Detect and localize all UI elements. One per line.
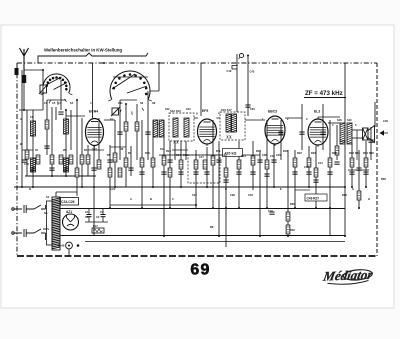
svg-text:C2: C2 xyxy=(100,210,104,214)
junction dot 7 xyxy=(125,103,127,105)
wire v43 xyxy=(266,120,268,208)
IF label underline xyxy=(304,97,346,99)
capacitor C14 xyxy=(167,160,172,162)
svg-text:XX: XX xyxy=(173,140,179,145)
wire v59 xyxy=(374,102,376,127)
svg-text:R11: R11 xyxy=(216,149,221,153)
wire v31 xyxy=(185,141,187,160)
svg-text:R8: R8 xyxy=(210,225,214,229)
capacitor C20 xyxy=(245,105,250,107)
junction dot 14 xyxy=(195,204,197,206)
anode stub ECH4 xyxy=(104,119,115,121)
mains terminals xyxy=(12,208,22,234)
svg-text:XX: XX xyxy=(226,135,232,140)
svg-text:C30: C30 xyxy=(270,154,275,158)
wire v2 xyxy=(32,110,34,187)
svg-text:B: B xyxy=(150,197,152,201)
capacitor C33 xyxy=(264,174,269,176)
svg-text:S1: S1 xyxy=(44,211,48,215)
left jog wire b xyxy=(110,146,126,148)
wire v5 xyxy=(46,100,48,155)
resistor R30 xyxy=(286,212,290,221)
dial lamp xyxy=(66,242,73,249)
resistor R34 xyxy=(364,158,368,167)
svg-text:69: 69 xyxy=(190,262,210,279)
mains to primary upper xyxy=(45,205,47,209)
svg-text:C24-C26: C24-C26 xyxy=(61,200,75,204)
svg-text:C41: C41 xyxy=(318,161,323,165)
OT to speaker stub top xyxy=(352,129,363,131)
trimmer capacitor C3 xyxy=(39,84,48,94)
T2 out stub xyxy=(245,119,265,121)
wire v38 xyxy=(236,54,238,112)
demodulator EBC3 xyxy=(265,116,285,146)
Mediator logo xyxy=(321,267,376,285)
capacitor C25 xyxy=(236,172,241,174)
svg-text:C3: C3 xyxy=(44,101,48,105)
wire v9 xyxy=(65,110,67,176)
transformer top to bus xyxy=(56,191,77,193)
band switch section B xyxy=(108,71,152,115)
resistor R11 xyxy=(211,156,215,165)
wire v47 xyxy=(294,150,296,208)
wire v34 xyxy=(206,147,208,187)
mains switch S1 lower xyxy=(26,229,45,233)
junction dot 8 xyxy=(141,207,143,209)
trimmer capacitor C12 xyxy=(111,107,120,116)
heater bus xyxy=(110,204,196,206)
mains fuse caps xyxy=(24,205,26,237)
filter capacitor block C24-C26 xyxy=(61,198,79,206)
wire v52 xyxy=(329,120,331,236)
mains to primary lower xyxy=(45,233,47,240)
wire v29 xyxy=(174,141,176,160)
wire v22 xyxy=(136,104,138,160)
output transformer primary S18 xyxy=(340,123,345,144)
capacitor C32 xyxy=(269,212,274,214)
resistor R7 xyxy=(124,122,128,131)
svg-text:220V: 220V xyxy=(43,227,49,231)
svg-text:R30: R30 xyxy=(290,202,295,206)
svg-text:C49 R27: C49 R27 xyxy=(307,196,320,200)
resistor R31 xyxy=(75,168,79,177)
wire v41 xyxy=(252,141,254,190)
svg-text:C11: C11 xyxy=(118,101,123,105)
svg-text:C28: C28 xyxy=(230,193,235,197)
ground bus xyxy=(60,235,345,237)
output connector arrow xyxy=(380,130,385,136)
RF coil S10 xyxy=(31,121,36,136)
capacitor C2 xyxy=(30,168,35,170)
junction dot 13 xyxy=(180,186,182,188)
resistor R18 xyxy=(162,156,166,165)
capacitor C36 xyxy=(327,172,332,174)
svg-text:D: D xyxy=(225,187,227,191)
svg-text:C28: C28 xyxy=(262,153,267,157)
band switch section A xyxy=(41,74,73,105)
junction dot 26 xyxy=(308,186,310,188)
capacitor C15 xyxy=(139,172,144,174)
transformer top wire xyxy=(55,192,57,197)
svg-text:Wellenbereichschalter in KW-St: Wellenbereichschalter in KW-Stellung xyxy=(44,48,122,53)
speaker branch wire xyxy=(356,130,358,160)
junction dot 17 xyxy=(218,235,220,237)
output pentode EL3 xyxy=(308,119,328,147)
wire v56 xyxy=(358,150,360,208)
capacitor C41 xyxy=(313,180,318,182)
resistor R14 xyxy=(265,160,269,169)
capacitor C29 xyxy=(271,160,276,162)
wire v44 xyxy=(273,144,275,187)
wire v23 xyxy=(141,120,143,208)
svg-text:C2: C2 xyxy=(96,215,100,219)
left rail jog xyxy=(22,149,33,151)
svg-text:C6: C6 xyxy=(30,115,34,119)
RF coil S11 xyxy=(64,119,69,134)
junction dot 38 xyxy=(81,186,83,188)
svg-text:R19: R19 xyxy=(183,153,188,157)
resistor R29 xyxy=(59,155,63,164)
wire v30 xyxy=(180,141,182,187)
wire v0 xyxy=(21,70,23,187)
capacitor C8 xyxy=(107,160,112,162)
grid stub ECH4 xyxy=(66,115,85,117)
osc section jog xyxy=(120,99,137,101)
capacitor C2 xyxy=(101,209,106,223)
svg-text:C44: C44 xyxy=(340,139,345,143)
wire v40 xyxy=(247,56,249,117)
wire v25 xyxy=(152,120,154,187)
resistor R10 xyxy=(140,158,144,167)
switch link wire xyxy=(113,76,148,78)
resistor R28 xyxy=(25,150,29,159)
svg-text:N: N xyxy=(29,187,31,191)
svg-text:C10: C10 xyxy=(92,147,97,151)
capacitor C10 xyxy=(91,168,96,170)
junction dot 0 xyxy=(23,109,25,111)
capacitor C42 xyxy=(320,132,325,134)
lamp junction dot xyxy=(77,244,80,247)
capacitor C45 xyxy=(356,168,361,170)
wire v32 xyxy=(195,150,197,208)
wire v6 xyxy=(51,107,53,176)
svg-text:R34: R34 xyxy=(363,151,368,155)
resistor R45 xyxy=(314,168,318,177)
wire v27 xyxy=(163,120,165,236)
wire v7 xyxy=(55,107,57,120)
IF T1 primary S12 xyxy=(173,118,178,137)
power transformer core hatching xyxy=(52,198,60,249)
wire v35 xyxy=(212,120,214,208)
resistor R12 xyxy=(237,160,241,169)
wire v37 xyxy=(225,150,227,247)
svg-text:R36: R36 xyxy=(381,177,386,181)
wire v42 xyxy=(259,150,261,236)
right jog wire e xyxy=(295,189,310,191)
wire v48 xyxy=(301,104,303,150)
capacitor C4 xyxy=(44,146,49,148)
junction dot 16 xyxy=(212,207,214,209)
chassis frame top xyxy=(17,62,377,64)
svg-text:E: E xyxy=(280,187,282,191)
wire v21 xyxy=(130,146,132,176)
resistor value box 420k xyxy=(223,149,243,157)
wire v54 xyxy=(344,63,346,236)
svg-text:EBC3: EBC3 xyxy=(268,110,277,114)
svg-text:C13: C13 xyxy=(155,122,160,126)
svg-text:R36: R36 xyxy=(342,193,347,197)
junction dot 34 xyxy=(21,186,23,188)
svg-text:R6: R6 xyxy=(120,147,124,151)
switch link jog xyxy=(150,91,159,94)
terminal block xyxy=(15,68,19,75)
junction dot 5 xyxy=(103,62,105,64)
bottom link wire xyxy=(85,241,345,243)
RF coil S3 xyxy=(64,158,69,172)
capacitor C21 xyxy=(204,172,209,174)
junction dot 9 xyxy=(152,186,154,188)
svg-text:C16: C16 xyxy=(24,162,29,166)
svg-text:R5: R5 xyxy=(107,153,111,157)
capacitor C18 xyxy=(161,172,166,174)
wire v26 xyxy=(158,63,160,91)
antenna node wire xyxy=(19,109,43,111)
capacitor C46 xyxy=(368,140,373,142)
wire v13 xyxy=(87,145,89,176)
svg-text:R23: R23 xyxy=(311,151,316,155)
resistor R15 xyxy=(293,158,297,167)
svg-text:S14: S14 xyxy=(160,147,165,151)
svg-text:R12: R12 xyxy=(241,154,246,158)
svg-text:A: A xyxy=(20,117,22,121)
capacitor C1 xyxy=(87,209,92,223)
pickup jack P xyxy=(239,53,244,59)
OT to speaker stub bottom xyxy=(352,137,362,139)
oscillator coil S14 xyxy=(153,120,158,137)
wire v33 xyxy=(200,63,202,116)
svg-text:S1: S1 xyxy=(46,195,50,199)
right jog wire d xyxy=(348,169,369,171)
resistor R13 xyxy=(251,156,255,165)
resistor R42 xyxy=(194,160,198,169)
heater cap rail xyxy=(85,221,108,223)
junction dot 12 xyxy=(169,207,171,209)
T1 to EF9 stub xyxy=(194,117,198,119)
switch feed jog xyxy=(47,99,66,101)
IF transformer T2 box xyxy=(220,112,245,140)
svg-text:C19: C19 xyxy=(227,69,232,73)
svg-text:C22: C22 xyxy=(222,153,227,157)
IF pentode EF9 xyxy=(198,119,217,146)
svg-text:C1: C1 xyxy=(85,210,89,214)
capacitor C16 xyxy=(21,160,26,162)
junction dot 33 xyxy=(365,186,367,188)
junction dot 2 xyxy=(65,109,67,111)
padder trimmer xyxy=(45,120,49,129)
svg-text:C32: C32 xyxy=(268,209,273,213)
capacitor C22 xyxy=(216,160,221,162)
capacitor C44 xyxy=(334,162,339,164)
resistor R43 xyxy=(203,160,207,169)
junction dot 39 xyxy=(109,207,111,209)
svg-text:2M: 2M xyxy=(63,148,67,152)
svg-text:H: H xyxy=(368,197,370,201)
EL3 top to right xyxy=(318,116,340,118)
svg-text:S12: S12 xyxy=(165,107,170,111)
junction dot 22 xyxy=(266,207,268,209)
wire v19 xyxy=(119,100,121,160)
svg-text:C7: C7 xyxy=(58,101,62,105)
svg-text:R4: R4 xyxy=(84,148,88,152)
wire v14 xyxy=(93,146,95,236)
antenna coil S1 xyxy=(22,75,26,83)
wire v1 xyxy=(26,110,28,176)
resistor R41 xyxy=(168,168,172,177)
junction dot 11 xyxy=(163,235,165,237)
antenna xyxy=(20,48,29,75)
capacitor C7 xyxy=(63,168,68,170)
loudspeaker xyxy=(363,126,375,143)
anode feed wire xyxy=(159,154,260,156)
wire v3 xyxy=(37,58,39,63)
capacitor C5 xyxy=(58,112,63,114)
wire v17 xyxy=(109,145,111,208)
capacitor C28 xyxy=(257,160,262,162)
junction dot 31 xyxy=(351,186,353,188)
svg-text:ECH4: ECH4 xyxy=(89,110,98,114)
svg-text:C5: C5 xyxy=(52,101,56,105)
svg-text:EL3: EL3 xyxy=(314,110,320,114)
wire v58 xyxy=(370,127,372,160)
resistor R40 xyxy=(151,158,155,167)
EL3 top wire xyxy=(317,117,319,119)
power transformer primary winding xyxy=(47,201,53,245)
tone network box xyxy=(188,155,220,183)
svg-text:S18: S18 xyxy=(337,118,342,122)
resistor R2 xyxy=(50,155,54,164)
wire v39 xyxy=(238,141,240,208)
antenna down wire xyxy=(23,83,25,110)
svg-text:B: B xyxy=(20,142,22,146)
junction dot 20 xyxy=(247,55,249,57)
resistor R23 xyxy=(328,158,332,167)
RF coil S2 xyxy=(31,158,36,172)
svg-text:Ch40: Ch40 xyxy=(58,244,65,248)
resistor R32 xyxy=(286,225,290,234)
wire v8 xyxy=(60,80,62,110)
svg-text:S4: S4 xyxy=(70,101,74,105)
junction dot 37 xyxy=(65,175,67,177)
capacitor C17 xyxy=(193,172,198,174)
svg-text:C29: C29 xyxy=(276,153,281,157)
capacitor C19 xyxy=(178,172,183,174)
junction dot 25 xyxy=(294,207,296,209)
chassis frame right xyxy=(376,63,378,256)
junction dot 36 xyxy=(51,175,53,177)
oscillator coil S15 xyxy=(159,120,164,137)
resistor R39 xyxy=(118,168,122,177)
svg-text:C42: C42 xyxy=(250,70,255,74)
resistor R47 xyxy=(92,228,104,233)
resistor R35 xyxy=(357,191,361,200)
resistor R9 xyxy=(124,158,128,167)
capacitor C27 xyxy=(250,172,255,174)
AVC bus xyxy=(60,208,345,210)
svg-text:C17: C17 xyxy=(199,155,204,159)
junction dot 1 xyxy=(42,69,44,71)
svg-text:R22: R22 xyxy=(297,151,302,155)
svg-text:R18: R18 xyxy=(166,149,171,153)
power transformer core xyxy=(52,197,60,250)
lamp down wire xyxy=(68,249,70,256)
svg-text:S19: S19 xyxy=(347,118,352,122)
output transformer secondary S19 xyxy=(347,123,352,144)
resistor R22 xyxy=(307,158,311,167)
capacitor C13 xyxy=(145,132,150,134)
junction dot 21 xyxy=(259,235,261,237)
svg-text:R10: R10 xyxy=(145,151,150,155)
HT bus xyxy=(14,186,345,188)
svg-text:S16 S17: S16 S17 xyxy=(221,108,232,112)
junction dot 30 xyxy=(344,235,346,237)
junction dot 19 xyxy=(238,207,240,209)
capacitor C34 xyxy=(292,172,297,174)
capacitor C38 xyxy=(363,172,368,174)
IF T2 primary S16 xyxy=(226,114,231,132)
EBC3 to EL3 stub xyxy=(285,117,302,119)
capacitor C35 xyxy=(306,172,311,174)
capacitor C40 xyxy=(299,132,304,134)
EL3 to OT stub xyxy=(328,122,340,124)
svg-text:C48: C48 xyxy=(383,119,388,123)
svg-text:C14: C14 xyxy=(176,153,181,157)
IF T1 secondary S13 xyxy=(184,118,189,137)
wire v12 xyxy=(81,118,83,187)
svg-text:R13: R13 xyxy=(256,149,261,153)
mid jog wire c xyxy=(172,149,188,151)
EF9 to T2 stub xyxy=(217,117,221,119)
wire v24 xyxy=(147,91,149,160)
svg-text:R36: R36 xyxy=(369,151,374,155)
resistor R3 xyxy=(69,155,73,164)
wire v46 xyxy=(287,150,289,236)
svg-text:R32: R32 xyxy=(290,228,295,232)
IF transformer T1 box xyxy=(169,113,194,141)
junction dot 28 xyxy=(329,207,331,209)
capacitor C11 xyxy=(128,168,133,170)
junction dot 23 xyxy=(273,186,275,188)
svg-text:S13: S13 xyxy=(186,107,191,111)
junction dot 3 xyxy=(76,99,78,101)
wire v55 xyxy=(351,143,353,187)
wire v10 xyxy=(70,110,72,150)
wire v53 xyxy=(336,125,338,160)
label box C49 R27 xyxy=(305,194,327,201)
svg-text:R25: R25 xyxy=(332,151,337,155)
capacitor C6 xyxy=(49,168,54,170)
wire v36 xyxy=(218,141,220,236)
resistor R46 xyxy=(335,146,339,155)
junction dot 29 xyxy=(344,186,346,188)
svg-text:C1: C1 xyxy=(85,215,89,219)
svg-text:AZ1: AZ1 xyxy=(66,210,72,214)
svg-text:S6: S6 xyxy=(140,101,144,105)
junction dot 18 xyxy=(225,207,227,209)
svg-text:C27: C27 xyxy=(192,193,197,197)
junction dot 35 xyxy=(32,186,34,188)
wire v50 xyxy=(315,145,317,208)
wire v16 xyxy=(92,63,94,118)
